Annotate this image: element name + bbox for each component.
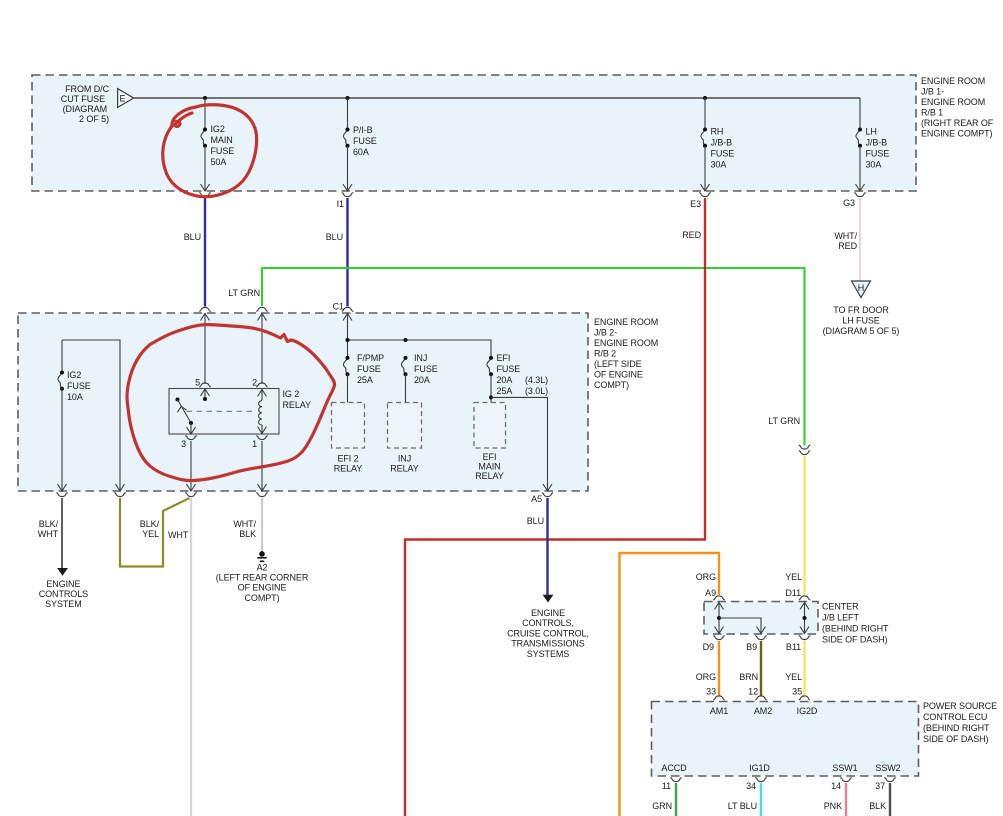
fuse INJ FUSE 20A (401, 353, 437, 403)
svg-text:RELAY: RELAY (334, 464, 363, 474)
svg-text:RELAY: RELAY (390, 464, 419, 474)
svg-text:D11: D11 (785, 588, 801, 598)
relay box EFI 2 RELAY (332, 403, 365, 474)
relay pin 5 connector (199, 383, 211, 387)
relay pin 5 stub (201, 389, 210, 396)
svg-text:FUSE: FUSE (497, 364, 521, 374)
wire PNK from SSW1 (845, 783, 847, 816)
svg-text:2 OF 5): 2 OF 5) (79, 114, 109, 124)
svg-text:ORG: ORG (696, 572, 716, 582)
svg-text:CUT FUSE: CUT FUSE (61, 94, 105, 104)
svg-text:RELAY: RELAY (283, 400, 312, 410)
svg-text:J/B 2-: J/B 2- (594, 328, 617, 338)
wire pin2 feed inside J/B2 (261, 313, 263, 384)
connector triangle E (118, 89, 134, 108)
svg-text:CENTER: CENTER (822, 602, 859, 612)
wire YEL from splice to D11 (803, 456, 805, 595)
svg-text:(DIAGRAM 5 OF 5): (DIAGRAM 5 OF 5) (823, 326, 900, 336)
svg-text:CRUISE CONTROL,: CRUISE CONTROL, (507, 628, 589, 638)
entry arrow pin2 feed (258, 314, 267, 321)
wire BLU from A5 (546, 498, 548, 595)
svg-text:(RIGHT REAR OF: (RIGHT REAR OF (921, 118, 994, 128)
junction box J/B 2 (18, 313, 588, 491)
svg-text:20A: 20A (414, 375, 430, 385)
svg-text:10A: 10A (67, 392, 83, 402)
svg-text:INJ: INJ (414, 353, 427, 363)
svg-text:(LEFT SIDE: (LEFT SIDE (594, 359, 642, 369)
annotation red circle around IG2 MAIN FUSE (163, 105, 257, 197)
connector LT GRN to YEL splice (799, 445, 811, 449)
svg-text:FUSE: FUSE (211, 146, 235, 156)
svg-text:LT BLU: LT BLU (728, 801, 757, 811)
svg-text:SIDE OF DASH): SIDE OF DASH) (923, 734, 989, 744)
svg-text:MAIN: MAIN (478, 462, 500, 472)
fuse P/I-B FUSE 60A (343, 98, 377, 191)
svg-text:ORG: ORG (696, 672, 716, 682)
svg-text:LH: LH (866, 127, 877, 137)
svg-text:(3.0L): (3.0L) (525, 386, 548, 396)
connector triangle H to FR door LH fuse (852, 281, 871, 298)
wire EFI fuse branch to A5 (491, 397, 548, 491)
svg-text:ENGINE ROOM: ENGINE ROOM (921, 76, 985, 86)
relay box EFI MAIN RELAY (474, 403, 506, 482)
connector pin 14 (840, 778, 852, 782)
wire C1 to fuse row (347, 313, 349, 358)
connector IG2D (799, 696, 811, 700)
svg-text:SSW2: SSW2 (875, 763, 900, 773)
svg-text:LT GRN: LT GRN (768, 416, 800, 426)
connector A5 (542, 493, 554, 497)
svg-text:14: 14 (831, 781, 841, 791)
svg-text:35: 35 (792, 687, 802, 697)
svg-text:WHT/: WHT/ (834, 231, 857, 241)
wire WHT down page (190, 498, 192, 816)
connector B9 (755, 636, 767, 640)
svg-text:30A: 30A (866, 160, 882, 170)
svg-text:I1: I1 (337, 199, 344, 209)
svg-text:FUSE: FUSE (866, 149, 890, 159)
svg-text:BLK/: BLK/ (39, 519, 59, 529)
svg-text:34: 34 (746, 781, 756, 791)
svg-text:COMPT): COMPT) (594, 380, 629, 390)
wire BLU from IG2 main fuse to J/B 2 (204, 198, 206, 307)
svg-text:FUSE: FUSE (711, 149, 735, 159)
junction dot (703, 96, 707, 100)
svg-text:P/I-B: P/I-B (353, 125, 373, 135)
relay switch contact (176, 398, 180, 402)
svg-text:R/B 1: R/B 1 (921, 108, 943, 118)
junction box CENTER J/B LEFT (704, 602, 818, 635)
connector below feed loop (114, 493, 126, 497)
connector A9 (713, 596, 725, 600)
fuse IG2 FUSE 10A with feed loop (58, 340, 125, 491)
junction dot (404, 338, 408, 342)
svg-text:BRN: BRN (739, 672, 758, 682)
svg-text:OF ENGINE: OF ENGINE (594, 370, 643, 380)
svg-text:WHT/: WHT/ (233, 519, 256, 529)
connector cup pin5 feed (199, 307, 211, 311)
svg-text:LH FUSE: LH FUSE (842, 316, 880, 326)
svg-text:FROM D/C: FROM D/C (65, 84, 109, 94)
svg-text:R/B 2: R/B 2 (594, 349, 616, 359)
svg-text:GRN: GRN (652, 801, 672, 811)
svg-text:SYSTEM: SYSTEM (45, 599, 82, 609)
svg-text:SSW1: SSW1 (832, 763, 857, 773)
relay pin 2 connector (256, 383, 268, 387)
svg-text:BLU: BLU (326, 232, 343, 242)
connector pin 34 (755, 778, 767, 782)
relay mechanical dashed link (187, 410, 256, 412)
svg-text:RH: RH (711, 127, 724, 137)
svg-text:5: 5 (195, 378, 200, 388)
svg-text:CONTROLS,: CONTROLS, (522, 618, 574, 628)
svg-text:C1: C1 (333, 302, 344, 312)
relay IG 2 RELAY (169, 389, 311, 435)
connector C1 cup (342, 307, 354, 311)
svg-text:EFI 2: EFI 2 (337, 454, 358, 464)
fuse F/PMP FUSE 25A (343, 353, 384, 403)
wire pin 1 to box edge (261, 441, 263, 491)
wire LT GRN from C1 branch to center J/B (262, 268, 805, 446)
svg-text:37: 37 (875, 781, 885, 791)
svg-text:33: 33 (706, 687, 716, 697)
fuse row bus (348, 340, 492, 358)
svg-text:G3: G3 (843, 198, 855, 208)
svg-text:RED: RED (682, 230, 701, 240)
svg-text:ENGINE ROOM: ENGINE ROOM (594, 317, 658, 327)
svg-text:RED: RED (838, 241, 857, 251)
wire BLK/WHT to engine controls (61, 498, 63, 569)
svg-text:2: 2 (252, 378, 257, 388)
svg-text:A5: A5 (531, 494, 542, 504)
svg-text:H: H (858, 283, 864, 293)
svg-text:AM1: AM1 (710, 706, 728, 716)
fuse IG2 MAIN FUSE 50A (201, 98, 235, 191)
entry arrow C1 (343, 314, 352, 321)
svg-text:IG 2: IG 2 (283, 389, 300, 399)
svg-text:ACCD: ACCD (661, 763, 687, 773)
entry arrow pin5 feed (201, 314, 210, 321)
svg-text:BLK: BLK (239, 529, 256, 539)
junction dot (203, 96, 207, 100)
junction dot (346, 96, 350, 100)
connector pin 37 (884, 778, 896, 782)
svg-text:FUSE: FUSE (353, 136, 377, 146)
connector below relay pin 3 (185, 493, 197, 497)
svg-text:PNK: PNK (824, 801, 842, 811)
internal branch to B9 (719, 618, 766, 634)
svg-text:A9: A9 (705, 588, 716, 598)
svg-text:BLU: BLU (527, 516, 544, 526)
svg-text:INJ: INJ (398, 454, 411, 464)
svg-text:WHT: WHT (38, 529, 59, 539)
connector IG2 main fuse output (199, 193, 211, 197)
svg-text:TO FR DOOR: TO FR DOOR (833, 305, 889, 315)
connector B11 (799, 636, 811, 640)
connector AM1 (713, 696, 725, 700)
fuse RH J/B-B FUSE 30A (701, 98, 735, 191)
internal wire A9 to D9 (715, 602, 724, 635)
svg-text:MAIN: MAIN (211, 135, 233, 145)
connector G3 (854, 193, 866, 197)
svg-text:J/B 1-: J/B 1- (921, 87, 944, 97)
svg-text:(BEHIND RIGHT: (BEHIND RIGHT (923, 723, 990, 733)
svg-text:(LEFT REAR CORNER: (LEFT REAR CORNER (216, 573, 309, 583)
wire BLK/YEL loop (120, 498, 190, 567)
wire YEL B11 to IG2D (803, 641, 805, 696)
svg-text:SIDE OF DASH): SIDE OF DASH) (822, 635, 888, 645)
svg-text:BLK/: BLK/ (140, 519, 160, 529)
svg-text:IG2D: IG2D (797, 706, 818, 716)
svg-text:B9: B9 (746, 642, 757, 652)
svg-text:(4.3L): (4.3L) (525, 375, 548, 385)
svg-text:25A: 25A (497, 386, 513, 396)
svg-text:YEL: YEL (785, 572, 802, 582)
wire ORG feed (620, 553, 720, 816)
relay coil (258, 389, 267, 435)
annotation red circle around IG 2 RELAY (127, 325, 335, 481)
wire GRN from ACCD (675, 783, 677, 816)
svg-text:POWER SOURCE: POWER SOURCE (923, 701, 997, 711)
svg-text:OF ENGINE: OF ENGINE (238, 583, 287, 593)
svg-text:11: 11 (662, 781, 671, 791)
svg-text:60A: 60A (353, 147, 369, 157)
connector cup pin2 feed (256, 307, 268, 311)
svg-text:A2: A2 (257, 562, 268, 572)
wire ORG D9 to AM1 (718, 641, 720, 696)
ECU box (652, 702, 919, 777)
junction box J/B 1 (32, 75, 916, 191)
svg-text:FUSE: FUSE (357, 364, 381, 374)
svg-text:50A: 50A (211, 157, 227, 167)
svg-text:FUSE: FUSE (67, 381, 91, 391)
svg-text:1: 1 (252, 439, 257, 449)
svg-text:ENGINE: ENGINE (531, 608, 565, 618)
svg-text:TRANSMISSIONS: TRANSMISSIONS (511, 639, 585, 649)
svg-text:(BEHIND RIGHT: (BEHIND RIGHT (822, 624, 889, 634)
connector I1 (342, 193, 354, 197)
wire WHT/RED from G3 (859, 198, 861, 281)
svg-text:RELAY: RELAY (475, 471, 504, 481)
wire RED from E3 (405, 198, 705, 816)
relay pin 1 connector (256, 436, 268, 440)
wire BLU from I1 to C1 (346, 198, 348, 307)
svg-text:IG2: IG2 (211, 124, 225, 134)
svg-text:ENGINE: ENGINE (46, 579, 80, 589)
svg-text:AM2: AM2 (754, 706, 772, 716)
svg-text:FUSE: FUSE (414, 364, 438, 374)
svg-text:F/PMP: F/PMP (357, 353, 384, 363)
svg-text:EFI: EFI (497, 353, 511, 363)
svg-text:(DIAGRAM: (DIAGRAM (63, 104, 107, 114)
svg-text:ENGINE COMPT): ENGINE COMPT) (921, 129, 993, 139)
svg-text:B11: B11 (786, 642, 801, 652)
connector AM2 (755, 696, 767, 700)
svg-text:YEL: YEL (142, 529, 159, 539)
svg-text:COMPT): COMPT) (244, 593, 279, 603)
svg-text:IG1D: IG1D (749, 763, 770, 773)
svg-text:J/B-B: J/B-B (711, 138, 733, 148)
svg-text:BLU: BLU (184, 232, 201, 242)
relay box INJ RELAY (388, 403, 422, 474)
connector D9 (713, 636, 725, 640)
svg-text:D9: D9 (703, 642, 714, 652)
connector pin 11 (670, 778, 682, 782)
svg-text:J/B LEFT: J/B LEFT (822, 613, 859, 623)
svg-text:12: 12 (748, 687, 758, 697)
svg-text:E3: E3 (690, 199, 701, 209)
svg-text:ENGINE ROOM: ENGINE ROOM (594, 338, 658, 348)
svg-text:3: 3 (181, 439, 186, 449)
svg-text:CONTROLS: CONTROLS (39, 589, 88, 599)
svg-text:CONTROL ECU: CONTROL ECU (923, 712, 987, 722)
svg-text:J/B-B: J/B-B (866, 138, 888, 148)
svg-text:LT GRN: LT GRN (228, 288, 260, 298)
wire BRN B9 to AM2 (760, 641, 762, 696)
svg-text:EFI: EFI (483, 452, 497, 462)
wire LT BLU from IG1D (760, 783, 762, 816)
wire BLK from SSW2 (889, 783, 891, 816)
svg-text:20A: 20A (497, 375, 513, 385)
svg-text:SYSTEMS: SYSTEMS (527, 649, 570, 659)
wire pin 3 to box edge (190, 441, 192, 491)
svg-text:WHT: WHT (168, 530, 189, 540)
wire pin5 feed inside J/B2 (204, 313, 206, 384)
fuse EFI FUSE 20A/25A (487, 353, 548, 403)
connector D11 (799, 596, 811, 600)
relay pin 3 connector (185, 436, 197, 440)
connector below relay pin 1 (256, 493, 268, 497)
fuse LH J/B-B FUSE 30A (856, 98, 890, 191)
svg-text:E: E (120, 94, 126, 104)
svg-text:YEL: YEL (785, 672, 802, 682)
svg-text:25A: 25A (357, 375, 373, 385)
junction dot (346, 338, 350, 342)
svg-text:BLK: BLK (869, 801, 886, 811)
connector E3 (699, 193, 711, 197)
ground A2 (216, 551, 309, 603)
svg-text:ENGINE ROOM: ENGINE ROOM (921, 97, 985, 107)
internal wire D11 to B11 (800, 602, 809, 635)
svg-text:30A: 30A (711, 160, 727, 170)
connector below pin IG2 fuse out (56, 493, 68, 497)
bus wire (134, 97, 860, 99)
wire WHT/BLK to ground (261, 498, 263, 551)
svg-text:IG2: IG2 (67, 370, 81, 380)
